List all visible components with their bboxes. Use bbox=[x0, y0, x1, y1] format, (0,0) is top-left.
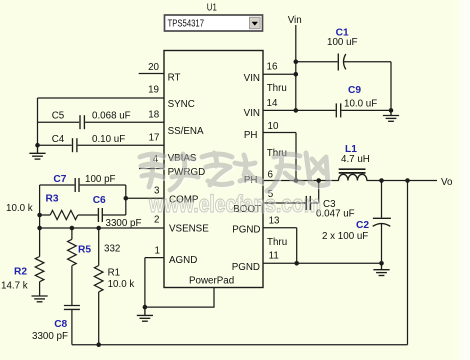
svg-text:0.10 uF: 0.10 uF bbox=[92, 134, 125, 145]
wire Thru PGND vertical bbox=[296, 228, 298, 264]
pin 20 RT bbox=[139, 62, 181, 84]
capacitor C2 bbox=[322, 181, 391, 264]
node junction pin6/Thru bbox=[294, 178, 299, 183]
node junction AGND ground bbox=[143, 305, 148, 310]
svg-text:Thru: Thru bbox=[267, 83, 287, 94]
node junction pin11/Thru bbox=[294, 261, 299, 266]
svg-text:R5: R5 bbox=[78, 245, 91, 256]
capacitor C9 bbox=[296, 85, 391, 117]
svg-text:Thru: Thru bbox=[267, 237, 287, 248]
svg-text:14.7 k: 14.7 k bbox=[1, 280, 28, 291]
capacitor C5 bbox=[52, 110, 131, 129]
pin 11 PGND bbox=[232, 251, 382, 274]
pin 17 VBIAS bbox=[38, 133, 197, 164]
resistor R1 bbox=[94, 228, 134, 345]
svg-text:TPS54317: TPS54317 bbox=[168, 19, 205, 30]
svg-text:C8: C8 bbox=[54, 319, 67, 330]
resistor R2 bbox=[1, 257, 44, 297]
node junction R3 rail bbox=[37, 213, 42, 218]
ground (C2/PGND) bbox=[373, 263, 389, 275]
capacitor C3 bbox=[306, 196, 354, 220]
svg-text:SYNC: SYNC bbox=[168, 99, 195, 110]
watermark bbox=[140, 153, 329, 219]
wire C1 right vertical bbox=[390, 62, 392, 111]
svg-text:C5: C5 bbox=[52, 110, 65, 121]
svg-text:332: 332 bbox=[104, 244, 120, 255]
svg-text:VIN: VIN bbox=[244, 108, 260, 119]
node junction R5 top bbox=[70, 226, 75, 231]
svg-text:PH: PH bbox=[244, 130, 258, 141]
pin 13 PGND bbox=[232, 216, 297, 236]
node junction SYNC/C4 ground bbox=[35, 143, 40, 148]
wire Thru PH vertical bbox=[295, 133, 297, 181]
pin 4 PWRGD bbox=[139, 154, 205, 178]
combo box U1 part selector bbox=[165, 15, 263, 31]
svg-text:10: 10 bbox=[268, 121, 279, 132]
node junction C2/PH bbox=[379, 178, 384, 183]
capacitor C7 bbox=[40, 174, 126, 192]
svg-text:17: 17 bbox=[149, 133, 160, 144]
svg-text:www.elecfans.com: www.elecfans.com bbox=[148, 191, 321, 218]
resistor R3 bbox=[6, 194, 98, 220]
ground (R2) bbox=[32, 296, 48, 302]
capacitor C6 bbox=[93, 195, 142, 229]
pin 16 VIN bbox=[244, 62, 296, 84]
wire Vin vertical rail bbox=[295, 25, 297, 110]
svg-text:2 x 100 uF: 2 x 100 uF bbox=[322, 231, 368, 242]
wire feedback vertical (Vo to bottom rail) bbox=[407, 181, 409, 345]
svg-text:VSENSE: VSENSE bbox=[169, 224, 209, 235]
pin 2 VSENSE bbox=[40, 215, 210, 235]
svg-text:100 pF: 100 pF bbox=[85, 174, 116, 185]
capacitor C4 bbox=[52, 134, 126, 152]
wire C3 to PH vertical bbox=[318, 181, 320, 204]
node junction C9 ground bbox=[389, 108, 394, 113]
node junction R1 bottom bbox=[96, 342, 101, 347]
svg-text:R1: R1 bbox=[108, 268, 121, 279]
resistor R5 bbox=[68, 228, 121, 305]
svg-text:AGND: AGND bbox=[169, 255, 197, 266]
node junction COMP bbox=[124, 196, 129, 201]
ground (C9) bbox=[383, 110, 399, 121]
right edge light band bbox=[454, 0, 470, 360]
svg-text:U1: U1 bbox=[207, 3, 217, 14]
svg-text:19: 19 bbox=[148, 85, 159, 96]
node junction C3/PH bbox=[316, 178, 321, 183]
svg-text:10.0 uF: 10.0 uF bbox=[344, 99, 377, 110]
pin 6 PH bbox=[244, 169, 339, 186]
svg-text:PowerPad: PowerPad bbox=[189, 276, 234, 287]
wire C7/C6 to COMP vertical bbox=[125, 185, 127, 215]
capacitor C8 bbox=[32, 306, 80, 345]
svg-text:18: 18 bbox=[148, 109, 159, 120]
svg-text:10.0 k: 10.0 k bbox=[108, 279, 135, 290]
svg-text:10.0 k: 10.0 k bbox=[6, 203, 33, 214]
svg-text:C4: C4 bbox=[52, 134, 65, 145]
inductor L1 bbox=[339, 144, 370, 181]
svg-text:RT: RT bbox=[168, 73, 181, 84]
wire SYNC left vertical bbox=[37, 98, 39, 145]
node junction R1 top bbox=[96, 226, 101, 231]
svg-text:1: 1 bbox=[155, 245, 160, 256]
wire L1 to Vo bbox=[367, 180, 437, 182]
svg-text:0.068 uF: 0.068 uF bbox=[92, 110, 131, 121]
svg-text:VIN: VIN bbox=[244, 73, 260, 84]
svg-text:SS/ENA: SS/ENA bbox=[168, 126, 204, 137]
pin 14 VIN bbox=[244, 98, 296, 119]
capacitor C1 bbox=[296, 28, 391, 71]
svg-text:4.7 uH: 4.7 uH bbox=[341, 154, 370, 165]
node junction Vin/pin14/C9 bbox=[294, 108, 299, 113]
svg-text:14: 14 bbox=[267, 98, 278, 109]
svg-text:C6: C6 bbox=[93, 195, 106, 206]
IC U1 TPS54317 body bbox=[164, 51, 263, 288]
pin 10 PH bbox=[244, 121, 296, 141]
svg-text:PGND: PGND bbox=[232, 262, 260, 273]
node junction feedback/PH bbox=[405, 178, 410, 183]
svg-text:R2: R2 bbox=[14, 267, 27, 278]
wire left vertical (C7 to R2) bbox=[39, 185, 41, 257]
svg-text:100 uF: 100 uF bbox=[327, 37, 358, 48]
wire feedback bottom rail bbox=[72, 344, 408, 346]
svg-text:16: 16 bbox=[267, 62, 278, 73]
svg-text:R3: R3 bbox=[46, 194, 59, 205]
node junction Vin/C1 bbox=[294, 59, 299, 64]
wire AGND vertical bbox=[144, 258, 146, 308]
svg-text:3300 pF: 3300 pF bbox=[32, 331, 68, 342]
ground (AGND/PowerPad) bbox=[137, 307, 153, 321]
svg-text:PGND: PGND bbox=[232, 225, 260, 236]
svg-text:20: 20 bbox=[148, 62, 159, 73]
node junction VSENSE left bbox=[37, 226, 42, 231]
svg-text:C9: C9 bbox=[348, 85, 361, 96]
svg-text:C7: C7 bbox=[53, 174, 66, 185]
pin 5 BOOT bbox=[233, 189, 305, 215]
svg-text:C2: C2 bbox=[356, 220, 369, 231]
wire PowerPad to ground bbox=[145, 288, 214, 308]
pin 1 AGND bbox=[145, 245, 197, 266]
pin 3 COMP bbox=[126, 185, 199, 205]
node junction Vin/pin16 bbox=[294, 72, 299, 77]
svg-text:11: 11 bbox=[269, 251, 279, 262]
svg-text:6: 6 bbox=[268, 169, 274, 180]
svg-text:Vin: Vin bbox=[288, 15, 302, 26]
pin 18 SS/ENA bbox=[38, 109, 205, 137]
node junction C2/ground bbox=[379, 261, 384, 266]
svg-text:Vo: Vo bbox=[441, 177, 453, 188]
svg-text:3300 pF: 3300 pF bbox=[106, 218, 142, 229]
ground (SYNC/C5/C4) bbox=[29, 145, 45, 159]
pin 19 SYNC bbox=[38, 85, 195, 111]
